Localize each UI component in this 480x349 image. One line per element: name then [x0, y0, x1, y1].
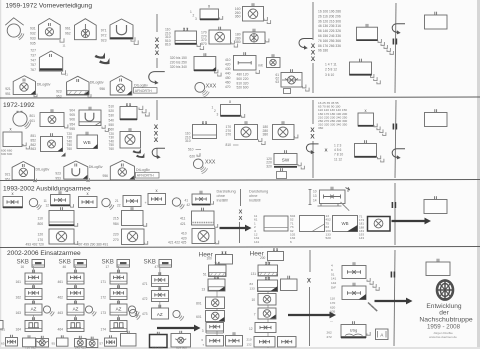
- band1 loop arrow over x=395: [392, 24, 405, 33]
- vertical boundary x=313 band2 with XX: [312, 100, 314, 124]
- svg-text:X: X: [239, 216, 243, 222]
- band4 bottom box 5: [75, 339, 87, 347]
- svg-text:46: 46: [63, 265, 67, 269]
- svg-text:550: 550: [109, 123, 115, 127]
- Heer1 box supply 801: [206, 297, 225, 309]
- svg-text:272: 272: [327, 335, 332, 339]
- SKB column line 3: [118, 266, 120, 321]
- II marker on x=395 band2: [392, 124, 394, 130]
- band3 wide maint box with legs: [320, 190, 346, 204]
- svg-text:962: 962: [65, 32, 71, 36]
- svg-text:76 166 256 366: 76 166 256 366: [318, 39, 341, 43]
- band1 house depot battalion: [39, 51, 62, 71]
- svg-text:11: 11: [65, 73, 68, 77]
- svg-text:656 658: 656 658: [152, 346, 163, 349]
- band4 right maint bn 2: [342, 286, 366, 300]
- svg-text:470: 470: [225, 85, 231, 89]
- svg-text:Nachschubtruppe: Nachschubtruppe: [419, 317, 472, 324]
- svg-text:174: 174: [101, 328, 107, 332]
- svg-text:DtF: DtF: [331, 286, 336, 290]
- band3 maint bn right: [192, 194, 211, 205]
- echo below rect 170: [231, 40, 234, 43]
- svg-text:923: 923: [56, 89, 62, 93]
- Heer2 box 83 133: [258, 280, 278, 292]
- band4 right log box: [341, 325, 366, 338]
- AFNORTH box: [134, 88, 158, 94]
- svg-text:497 499 290 380 491: 497 499 290 380 491: [77, 243, 108, 247]
- vertical boundary x=157 band1 with XXX: [156, 14, 158, 32]
- band2 brigade rect top: [221, 105, 241, 117]
- band1 big circle depot with roof: [5, 18, 23, 25]
- svg-text:13: 13: [313, 194, 317, 198]
- svg-text:X: X: [310, 134, 315, 141]
- band4 bottom box 1: [6, 338, 18, 347]
- band2 rect 110 210 310: [193, 125, 217, 139]
- svg-text:36 126 216 306: 36 126 216 306: [318, 19, 341, 23]
- band2 bottom houses DtLogBv: [12, 162, 34, 180]
- svg-text:380: 380: [235, 40, 241, 44]
- svg-text:862: 862: [31, 143, 37, 147]
- vertical boundary x=157 band2 with XXX: [156, 100, 158, 120]
- band3 maint bn II: [51, 195, 71, 206]
- svg-text:Darstellung: Darstellung: [249, 190, 268, 194]
- band3 boundary x=240 with XX: [240, 189, 242, 206]
- svg-text:560: 560: [109, 128, 115, 132]
- band1 rect right 349 with dark bottom: [350, 62, 372, 75]
- svg-text:921: 921: [5, 87, 11, 91]
- vertical corps boundary x=395: [395, 3, 396, 93]
- svg-text:83: 83: [250, 282, 254, 286]
- svg-text:16 106 196 286: 16 106 196 286: [318, 10, 341, 14]
- svg-text:DtLogBv: DtLogBv: [89, 165, 103, 169]
- band2 rect 120 with plus ticks: [120, 107, 137, 120]
- svg-text:17: 17: [106, 265, 110, 269]
- svg-text:131: 131: [251, 272, 257, 276]
- svg-text:500 220: 500 220: [237, 77, 249, 81]
- svg-text:540: 540: [109, 118, 115, 122]
- svg-text:12: 12: [46, 203, 50, 207]
- band2 rect supply bn 170: [235, 125, 258, 140]
- svg-text:7 8 10: 7 8 10: [334, 153, 343, 157]
- echo below house 921: [34, 94, 37, 97]
- echo right of rect 160: [264, 17, 267, 20]
- band2 rect right 358 with x top: [358, 113, 374, 126]
- svg-text:2 5 8 12: 2 5 8 12: [325, 68, 337, 72]
- band3 thick arrow mid: [220, 225, 252, 232]
- svg-text:801: 801: [30, 114, 36, 118]
- svg-text:932: 932: [30, 32, 36, 36]
- svg-text:InstBtl!: InstBtl!: [249, 199, 261, 203]
- svg-text:96 186: 96 186: [318, 49, 328, 53]
- band3 bold supply box right: [368, 217, 391, 232]
- svg-text:810 320: 810 320: [237, 81, 249, 85]
- svg-text:493 492 720: 493 492 720: [26, 243, 45, 247]
- svg-text:86 176 266 336: 86 176 266 336: [318, 44, 341, 48]
- svg-text:320 bis 340: 320 bis 340: [170, 65, 187, 69]
- svg-text:X: X: [155, 50, 160, 57]
- band1 rect 110-810 division supply: [175, 31, 197, 44]
- SKB box 463: [67, 304, 84, 315]
- Heer1 box supply 601: [206, 311, 225, 322]
- svg-text:WB: WB: [83, 140, 90, 145]
- svg-text:601: 601: [30, 119, 36, 123]
- SKB box 172: [110, 289, 127, 300]
- svg-text:142: 142: [331, 281, 336, 285]
- svg-text:1993-2002 Ausbildungsarmee: 1993-2002 Ausbildungsarmee: [3, 186, 91, 193]
- Heer2 box maint 12: [255, 323, 276, 333]
- Heer1 box 51: [209, 265, 227, 277]
- echo below house 931: [60, 38, 64, 42]
- band2 bottom house U 923: [64, 161, 88, 179]
- svg-text:AZ: AZ: [31, 307, 37, 312]
- svg-text:461: 461: [58, 280, 64, 284]
- svg-text:65: 65: [1, 342, 5, 346]
- svg-text:421 422 425: 421 422 425: [168, 241, 187, 245]
- svg-text:767: 767: [30, 68, 36, 72]
- svg-text:141: 141: [331, 277, 336, 281]
- Nachschubtruppe emblem: [437, 280, 453, 299]
- svg-text:220: 220: [113, 233, 119, 237]
- SKB box 171: [110, 273, 127, 284]
- svg-text:961: 961: [65, 27, 71, 31]
- svg-text:X: X: [239, 210, 243, 216]
- svg-text:320: 320: [266, 164, 272, 168]
- svg-text:904: 904: [70, 109, 76, 113]
- SKB circle 3: [128, 306, 135, 313]
- svg-text:51: 51: [203, 273, 207, 277]
- band2 rect supply bn right: [273, 125, 295, 140]
- svg-text:AFNORTH: AFNORTH: [135, 89, 152, 93]
- band4 thick arrow SKB: [157, 325, 201, 332]
- band3 circle 3: [172, 198, 180, 206]
- svg-text:56 146 226 326: 56 146 226 326: [318, 29, 341, 33]
- svg-text:47: 47: [155, 265, 159, 269]
- band2 rect supply with circle lower: [120, 132, 141, 149]
- band2 rect lower right: [355, 144, 377, 158]
- svg-text:951: 951: [5, 178, 11, 182]
- band4 boundary x=310 with X: [309, 250, 311, 272]
- svg-text:906: 906: [70, 118, 76, 122]
- band4 thick arrow to Entwicklung: [375, 298, 413, 305]
- svg-text:810: 810: [165, 43, 171, 47]
- svg-text:440: 440: [225, 72, 231, 76]
- band3 group2 supply rect 220 270: [122, 229, 145, 245]
- svg-text:170: 170: [330, 301, 335, 305]
- SKB box 473 AZ: [152, 308, 169, 319]
- Heer col1 connector: [216, 264, 218, 346]
- svg-text:659 660: 659 660: [176, 346, 187, 349]
- svg-text:3: 3: [202, 329, 204, 333]
- band4 far right rect: [426, 262, 450, 276]
- band1 rect 180 transport bn: [243, 32, 265, 44]
- band2 loop arrow lower left: [152, 148, 165, 157]
- hatch echo below wide box: [341, 202, 345, 206]
- band2 big circle depot: [13, 112, 27, 126]
- SKB box 161: [25, 273, 42, 284]
- svg-text:242 423: 242 423: [75, 346, 86, 349]
- svg-text:310: 310: [185, 139, 191, 143]
- band1 loop arrow on x157: [149, 72, 165, 83]
- band2 loop arrow over x=395: [392, 149, 405, 158]
- svg-text:1 2 3: 1 2 3: [334, 144, 341, 148]
- II marker on x=395 band1: [392, 39, 394, 45]
- SKB box 472: [152, 291, 169, 302]
- svg-text:66 156 246 336: 66 156 246 336: [318, 34, 341, 38]
- svg-text:USg: USg: [350, 329, 357, 333]
- band1 rect airborne supply 61: [281, 73, 302, 88]
- svg-text:760: 760: [67, 147, 73, 151]
- svg-text:956: 956: [103, 174, 109, 178]
- svg-text:923: 923: [55, 172, 61, 176]
- svg-text:955: 955: [70, 127, 76, 131]
- svg-text:921: 921: [5, 173, 11, 177]
- SKB box 461: [67, 273, 84, 284]
- svg-text:ohne: ohne: [217, 194, 225, 198]
- Heer2 box 131: [258, 265, 278, 276]
- svg-text:1972-1992: 1972-1992: [3, 102, 35, 109]
- svg-text:510: 510: [188, 148, 194, 152]
- svg-text:727: 727: [30, 49, 36, 53]
- band1 dark chevrons: [95, 53, 106, 59]
- svg-text:800: 800: [38, 222, 44, 226]
- band4 right maint bn 1: [342, 266, 366, 279]
- svg-text:954: 954: [70, 122, 76, 126]
- svg-text:164: 164: [16, 328, 22, 332]
- svg-text:110: 110: [330, 297, 335, 301]
- svg-text:163: 163: [16, 311, 22, 315]
- svg-text:971: 971: [101, 29, 107, 33]
- svg-text:471: 471: [142, 282, 148, 286]
- svg-text:1959 - 2008: 1959 - 2008: [427, 324, 461, 331]
- svg-text:1 4 7 11: 1 4 7 11: [325, 63, 337, 67]
- band4 bottom box 4: [57, 338, 69, 346]
- dark chevrons below: [133, 149, 141, 154]
- svg-text:410: 410: [225, 58, 231, 62]
- band1 bottom house depot 923: [67, 76, 90, 95]
- band separator line 1: [0, 97, 480, 98]
- svg-text:3 6 10: 3 6 10: [325, 73, 334, 77]
- svg-text:AFNORTH: AFNORTH: [137, 174, 154, 178]
- band4 bottom box 10: [171, 334, 191, 348]
- svg-text:215: 215: [113, 217, 119, 221]
- band4 small radio box: [376, 329, 389, 340]
- svg-text:972: 972: [101, 34, 107, 38]
- svg-text:3: 3: [195, 17, 197, 21]
- band1 small rect companion: [267, 58, 281, 68]
- svg-text:473: 473: [142, 312, 148, 316]
- svg-text:100: 100: [207, 257, 213, 261]
- Heer2 side box: [281, 279, 298, 291]
- svg-text:162: 162: [16, 296, 22, 300]
- small mark below rect 61: [284, 89, 291, 94]
- band4 bottom box 7: [105, 338, 117, 346]
- svg-text:10: 10: [251, 298, 255, 302]
- svg-text:der: der: [439, 310, 449, 317]
- svg-text:410: 410: [181, 232, 187, 236]
- band4 bottom box 9: [150, 335, 168, 348]
- Heer1 bottom pair maint: [206, 336, 224, 347]
- band1 rect corps supply upper right: [357, 27, 378, 40]
- svg-text:143: 143: [359, 236, 364, 240]
- svg-text:463: 463: [58, 311, 64, 315]
- svg-text:11 12: 11 12: [334, 157, 342, 161]
- band3 group3 rect 411 421: [192, 211, 215, 225]
- svg-text:462: 462: [58, 296, 64, 300]
- band1 rect 160 corps supply bn: [243, 7, 264, 22]
- svg-text:200: 200: [260, 256, 266, 260]
- svg-text:AZ: AZ: [73, 307, 79, 312]
- svg-text:7: 7: [254, 313, 256, 317]
- band3 rect WB: [333, 216, 358, 232]
- band1 bottom house DtLogBv 921: [13, 76, 35, 95]
- circles both sides of 473: [129, 309, 136, 316]
- svg-text:4 5 6: 4 5 6: [334, 148, 341, 152]
- svg-text:26 116 206 296: 26 116 206 296: [318, 14, 341, 18]
- SKB column line 1: [33, 266, 35, 321]
- band3 maint company X 3: [148, 194, 166, 205]
- left edge cut box: [0, 321, 3, 330]
- band1 house workshop U: [110, 19, 133, 39]
- svg-text:+: +: [145, 201, 147, 205]
- band3 group3 supply rect 410 420: [192, 229, 215, 244]
- SKB box 462: [67, 289, 84, 300]
- svg-text:601: 601: [196, 315, 202, 319]
- band1 loop arrow to corps: [299, 38, 312, 47]
- band2 SW rect: [274, 154, 297, 165]
- Heer2 box supply 7: [258, 308, 276, 319]
- band1 house 961 transport battalion: [75, 19, 97, 40]
- svg-text:905: 905: [70, 113, 76, 117]
- SKB box 163: [25, 304, 42, 315]
- svg-text:933: 933: [30, 37, 36, 41]
- band3 group2 rect 215 984: [122, 211, 144, 226]
- echo train below rect: [374, 124, 377, 127]
- svg-text:22: 22: [117, 203, 121, 207]
- svg-text:141: 141: [254, 240, 259, 244]
- svg-text:---: ---: [330, 319, 333, 323]
- svg-text:13: 13: [201, 288, 205, 292]
- svg-text:4: 4: [331, 264, 333, 268]
- band1 house 931 supply battalion: [39, 19, 61, 40]
- svg-text:460: 460: [225, 81, 231, 85]
- svg-text:DtLogBv: DtLogBv: [90, 81, 104, 85]
- band4 thick arrow crossing boundary: [288, 312, 336, 319]
- svg-text:63: 63: [276, 80, 280, 84]
- svg-text:173: 173: [101, 311, 107, 315]
- svg-text:510: 510: [109, 105, 115, 109]
- svg-text:Darstellung: Darstellung: [217, 190, 236, 194]
- svg-text:421: 421: [180, 222, 186, 226]
- svg-text:DtLogBv: DtLogBv: [136, 168, 150, 172]
- SKB box 162: [25, 289, 42, 300]
- svg-text:863: 863: [31, 147, 37, 151]
- svg-text:10: 10: [313, 190, 317, 194]
- svg-text:472: 472: [142, 297, 148, 301]
- Heer1 box 13: [208, 279, 225, 291]
- band2 far right rect: [425, 113, 448, 127]
- vertical boundary x=313 band1 with XXX: [312, 2, 314, 40]
- band2 bottom house AFNORTH: [110, 161, 134, 180]
- II marker on x=395 band3: [391, 202, 393, 208]
- svg-text:X: X: [311, 56, 316, 63]
- svg-text:DtLogBv: DtLogBv: [36, 168, 50, 172]
- svg-text:mit: mit: [258, 64, 263, 68]
- SKB box 471: [152, 276, 169, 287]
- echo train below: [378, 39, 381, 42]
- svg-text:220 bis 250: 220 bis 250: [170, 61, 187, 65]
- svg-text:12: 12: [249, 327, 253, 331]
- SKB box 464: [67, 321, 84, 332]
- Heer2 bottom pair maint: [254, 337, 275, 348]
- band3 far right rect: [424, 200, 447, 214]
- svg-text:956: 956: [100, 87, 106, 91]
- svg-text:430: 430: [225, 67, 231, 71]
- band3 maint company X 2: [79, 197, 98, 208]
- svg-text:360: 360: [235, 15, 241, 19]
- SKB column line 2: [75, 266, 77, 321]
- SKB box 174: [110, 321, 127, 332]
- svg-text:A: A: [380, 333, 383, 338]
- svg-text:DtLogBv: DtLogBv: [37, 82, 51, 86]
- svg-text:WB: WB: [341, 221, 348, 226]
- band2 WB rect: [77, 135, 98, 149]
- band1 rect supply battalion 170: [209, 30, 231, 44]
- Heer col2 connector: [267, 261, 269, 349]
- echo below workshop house: [131, 37, 135, 41]
- svg-text:870: 870: [201, 42, 207, 46]
- band4 bottom box 6: [87, 339, 98, 347]
- svg-text:ohne: ohne: [249, 194, 257, 198]
- band1 rect maintenance mit: [234, 56, 257, 71]
- svg-text:605: 605: [330, 310, 335, 314]
- svg-text:120: 120: [38, 233, 44, 237]
- svg-text:520: 520: [109, 109, 115, 113]
- band4 bottom box 8: [121, 334, 137, 347]
- svg-text:953: 953: [55, 177, 61, 181]
- svg-text:737: 737: [30, 53, 36, 57]
- band1 bottom house DtLogBv AFNORTH: [110, 76, 132, 95]
- echo below workshop 904: [102, 125, 105, 128]
- svg-text:14: 14: [313, 199, 317, 203]
- svg-text:InstBtl!: InstBtl!: [217, 199, 229, 203]
- svg-text:420: 420: [225, 63, 231, 67]
- svg-text:XXX: XXX: [206, 84, 217, 90]
- band3 rect list A: [264, 216, 288, 231]
- svg-text:46 136 236 316: 46 136 236 316: [318, 24, 341, 28]
- band3 maint box 3: [123, 196, 141, 207]
- svg-text:2002-2006 Einsatzarmee: 2002-2006 Einsatzarmee: [7, 250, 81, 257]
- svg-text:923: 923: [101, 39, 107, 43]
- svg-text:935: 935: [30, 42, 36, 46]
- svg-text:262: 262: [327, 331, 332, 335]
- II marker on x=395 band4: [390, 272, 392, 278]
- band4 bottom box 2: [23, 338, 36, 347]
- svg-text:370: 370: [226, 133, 232, 137]
- svg-text:600 600: 600 600: [1, 152, 12, 156]
- band1 rect corps depot: [194, 57, 216, 71]
- echo below house 923: [88, 94, 91, 97]
- band4 bottom box 3: [36, 339, 49, 348]
- svg-text:132: 132: [247, 342, 252, 346]
- band3 maint company X: [3, 197, 23, 208]
- band separator line 2: [0, 180, 480, 181]
- svg-text:16: 16: [21, 265, 25, 269]
- svg-text:170: 170: [38, 238, 44, 242]
- svg-text:161: 161: [16, 280, 22, 284]
- Heer2 box supply 10: [258, 294, 276, 306]
- svg-text:801: 801: [196, 302, 202, 306]
- svg-text:951: 951: [5, 92, 11, 96]
